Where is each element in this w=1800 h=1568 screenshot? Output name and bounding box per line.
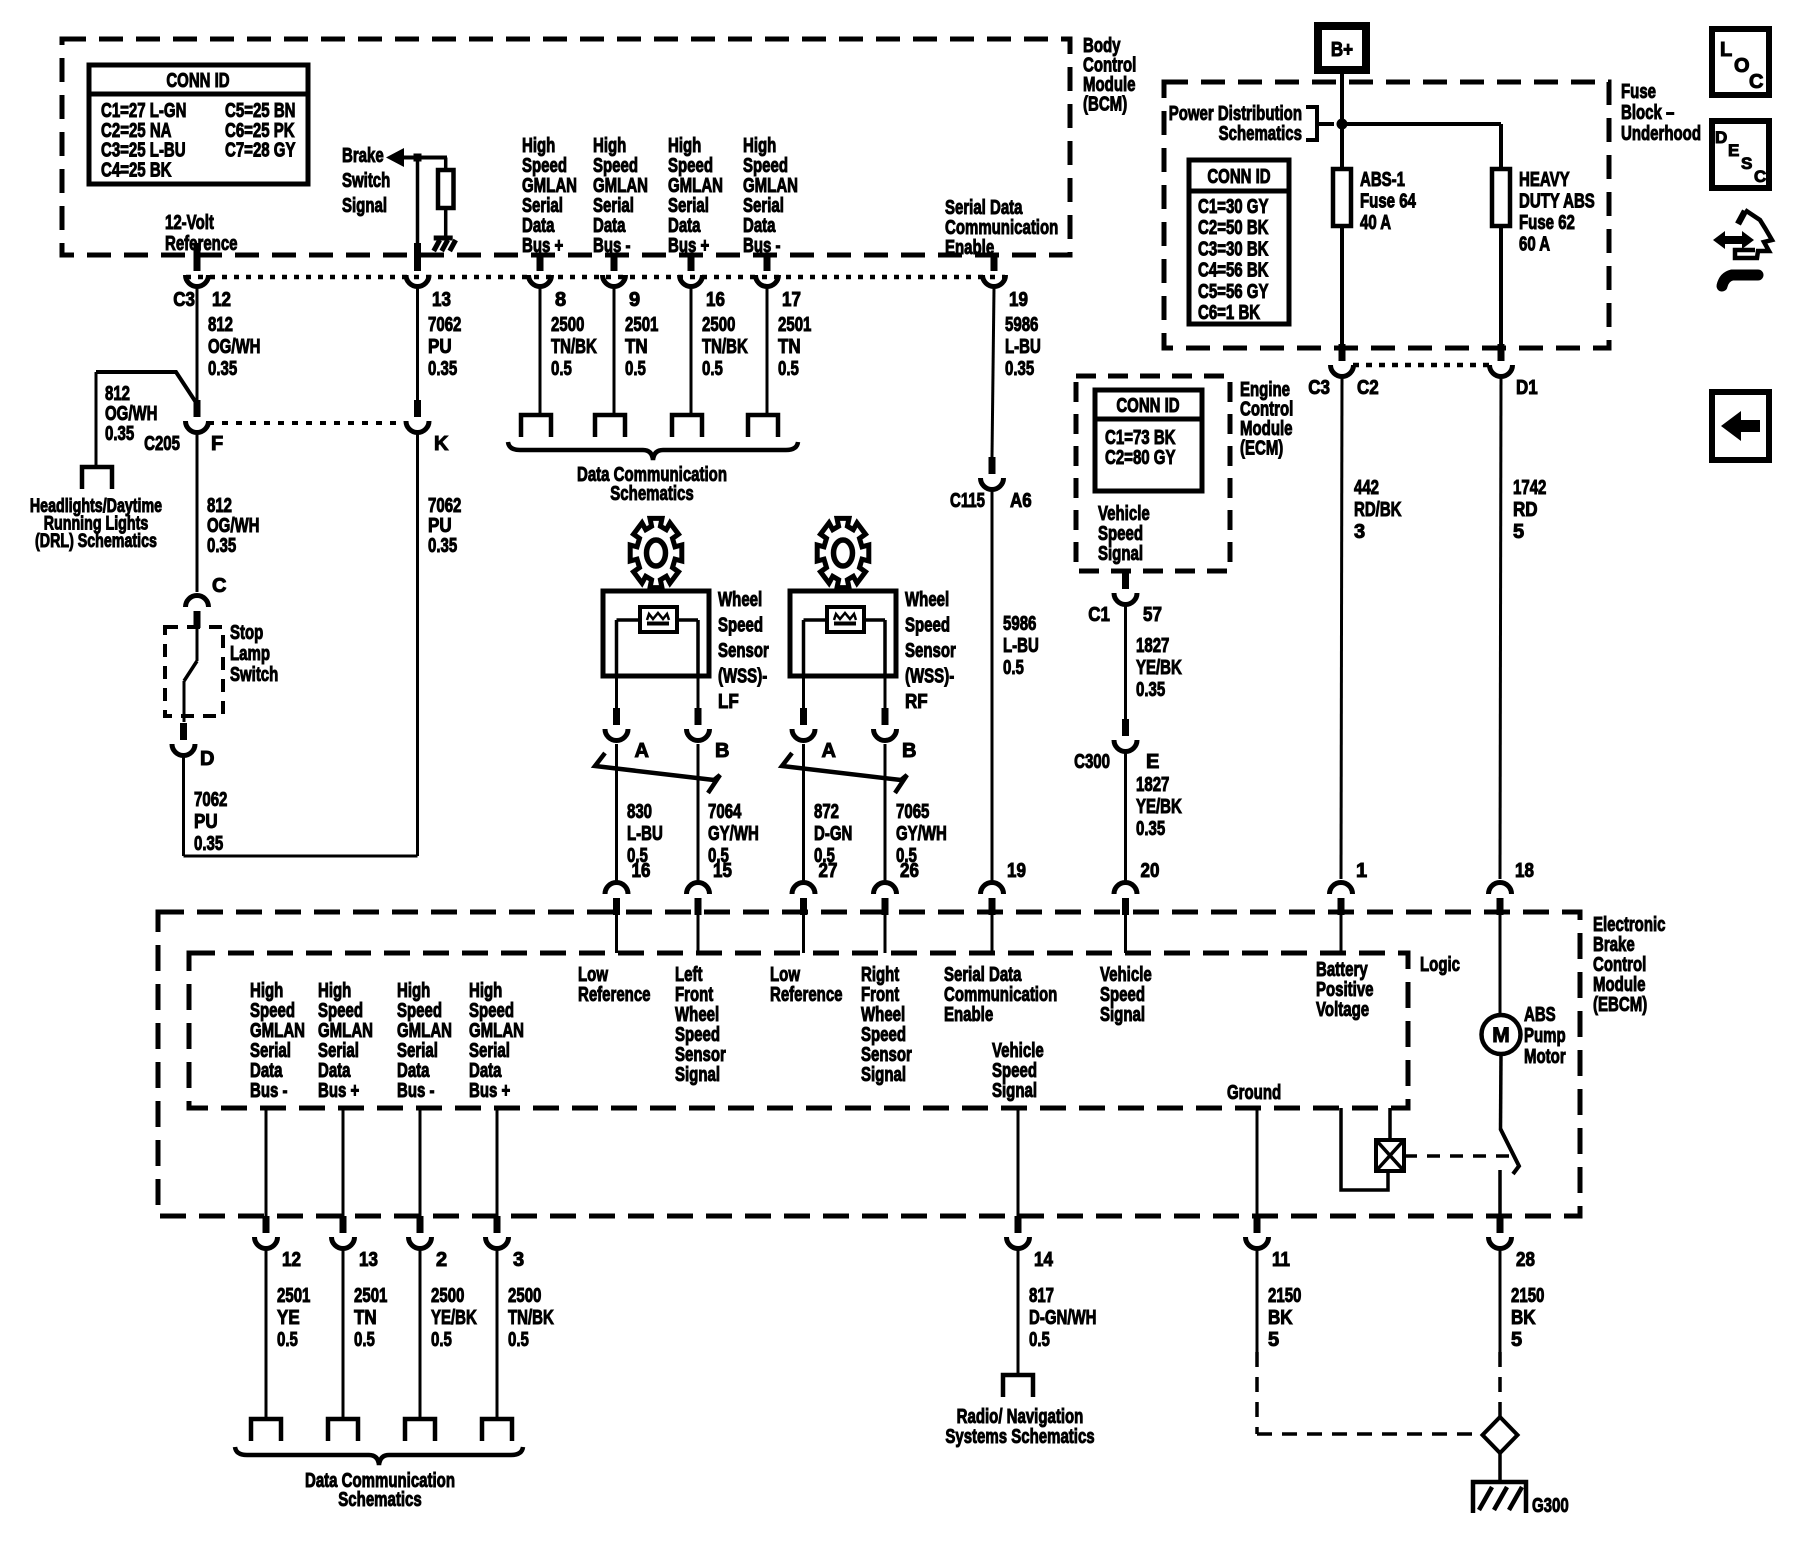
svg-text:(ECM): (ECM) xyxy=(1240,438,1283,460)
junction dot brake signal node xyxy=(414,154,422,162)
ground G300 xyxy=(1473,1482,1569,1517)
fuse block underhood box xyxy=(1164,82,1609,348)
svg-text:Radio/ Navigation: Radio/ Navigation xyxy=(957,1406,1084,1428)
svg-text:Serial: Serial xyxy=(469,1040,510,1062)
svg-text:16: 16 xyxy=(632,860,651,882)
connector EBCM pin 26 xyxy=(874,860,919,915)
svg-text:D1: D1 xyxy=(1516,377,1538,399)
svg-text:7065: 7065 xyxy=(896,801,929,823)
brace data communication (bottom) xyxy=(235,1447,523,1465)
svg-text:Signal: Signal xyxy=(992,1080,1037,1102)
svg-text:High: High xyxy=(318,980,351,1002)
wire 2150 BK dashed to splice xyxy=(1257,1352,1481,1434)
label 2150 BK 5 (pin 11) xyxy=(1268,1285,1301,1351)
wire EBCM pin 19 into logic box xyxy=(991,915,994,953)
svg-text:C115: C115 xyxy=(950,490,985,512)
label Body Control Module (BCM) xyxy=(1083,35,1136,116)
label 2500 TN/BK 0.5 xyxy=(508,1285,554,1351)
svg-text:7062: 7062 xyxy=(428,495,461,517)
svg-text:0.35: 0.35 xyxy=(428,535,457,557)
label Data Communication Schematics (bottom) xyxy=(305,1470,455,1511)
svg-text:Signal: Signal xyxy=(675,1064,720,1086)
connector EBCM pin 1 xyxy=(1330,860,1368,915)
wire 812 OG/WH (F to stop lamp switch) xyxy=(196,434,199,592)
svg-text:Data: Data xyxy=(250,1060,283,1082)
wire 2501 TN (pin 9) xyxy=(613,288,616,415)
connector pin 19 xyxy=(983,254,1028,311)
connector pin 9 xyxy=(603,254,641,311)
svg-text:Wheel: Wheel xyxy=(905,589,949,611)
svg-text:C300: C300 xyxy=(1074,751,1110,773)
svg-text:Data: Data xyxy=(318,1060,351,1082)
icon connector view swoosh xyxy=(1713,210,1772,286)
wire sensor RF lead A xyxy=(802,676,805,708)
svg-text:2150: 2150 xyxy=(1268,1285,1301,1307)
icon back arrow box xyxy=(1712,392,1769,460)
svg-text:830: 830 xyxy=(627,801,652,823)
svg-text:Motor: Motor xyxy=(1524,1046,1566,1068)
wire splice to ground xyxy=(1498,1453,1502,1483)
wire switch to EBCM pin 28 xyxy=(1498,1170,1502,1220)
svg-text:OG/WH: OG/WH xyxy=(208,336,261,358)
power distribution bracket xyxy=(1306,107,1334,140)
svg-text:Speed: Speed xyxy=(397,1000,442,1022)
off-page connector xyxy=(595,415,625,437)
svg-text:Signal: Signal xyxy=(1100,1004,1145,1026)
fuse ABS-1 Fuse 64 40 A xyxy=(1333,169,1351,226)
svg-text:Module: Module xyxy=(1593,974,1646,996)
svg-text:Schematics: Schematics xyxy=(1219,123,1302,145)
svg-text:A6: A6 xyxy=(1010,490,1032,512)
label 7062 PU 0.35 (lower) xyxy=(428,495,461,557)
wheel speed sensor RF body xyxy=(790,591,896,676)
wire EBCM pin 27 into logic box xyxy=(802,915,805,953)
label Electronic Brake Control Module (EBCM) xyxy=(1593,914,1666,1016)
svg-text:A: A xyxy=(822,740,836,762)
svg-text:CONN ID: CONN ID xyxy=(1207,166,1270,188)
wire EBCM pin 26 into logic box xyxy=(884,915,887,953)
BCM CONN ID table xyxy=(89,65,308,184)
wire 2501 TN (pin 17) xyxy=(766,288,769,415)
label 812 OG/WH 0.35 (upper) xyxy=(208,314,261,380)
svg-text:28: 28 xyxy=(1516,1249,1535,1271)
svg-text:High: High xyxy=(250,980,283,1002)
connector C3/C2 xyxy=(1308,344,1378,399)
connector EBCM pin 3 xyxy=(486,1216,525,1271)
svg-text:872: 872 xyxy=(814,801,839,823)
svg-text:Serial: Serial xyxy=(593,195,634,217)
svg-text:High: High xyxy=(593,135,626,157)
svg-text:B: B xyxy=(715,740,729,762)
off-page connector xyxy=(748,415,778,437)
label 7062 PU 0.35 (upper) xyxy=(428,314,461,380)
svg-text:PU: PU xyxy=(194,811,218,833)
svg-text:High: High xyxy=(469,980,502,1002)
svg-text:5986: 5986 xyxy=(1005,314,1038,336)
svg-text:C2: C2 xyxy=(1357,377,1379,399)
svg-text:Voltage: Voltage xyxy=(1316,999,1369,1021)
label High Speed GMLAN Serial Data Bus - (EBCM pin 2) xyxy=(397,980,452,1102)
svg-text:(BCM): (BCM) xyxy=(1083,94,1127,116)
connector D1 xyxy=(1490,344,1538,399)
wire EBCM GMLAN pin 2 down xyxy=(419,1108,422,1216)
svg-text:Enable: Enable xyxy=(944,1004,993,1026)
svg-text:S: S xyxy=(1741,154,1752,173)
svg-text:C5=56 GY: C5=56 GY xyxy=(1198,281,1269,303)
label 12-Volt Reference xyxy=(165,212,238,255)
svg-text:60 A: 60 A xyxy=(1519,234,1550,256)
svg-text:Low: Low xyxy=(770,964,800,986)
svg-text:Signal: Signal xyxy=(342,195,387,217)
off-page connector xyxy=(405,1419,435,1441)
svg-text:817: 817 xyxy=(1029,1285,1054,1307)
wire EBCM pin 20 into logic box xyxy=(1124,915,1127,953)
label 5986 L-BU 0.35 xyxy=(1005,314,1041,380)
svg-text:0.5: 0.5 xyxy=(551,358,572,380)
connector EBCM pin 18 xyxy=(1489,860,1534,915)
svg-text:0.5: 0.5 xyxy=(1029,1329,1050,1351)
svg-text:Signal: Signal xyxy=(1098,543,1143,565)
svg-text:CONN ID: CONN ID xyxy=(166,70,229,92)
svg-text:Underhood: Underhood xyxy=(1621,123,1701,145)
svg-text:Speed: Speed xyxy=(992,1060,1037,1082)
svg-text:Power Distribution: Power Distribution xyxy=(1169,103,1302,125)
svg-text:C5=25 BN: C5=25 BN xyxy=(225,100,296,122)
svg-text:TN/BK: TN/BK xyxy=(508,1307,554,1329)
svg-text:Fuse: Fuse xyxy=(1621,81,1656,103)
svg-text:Speed: Speed xyxy=(1100,984,1145,1006)
svg-text:C: C xyxy=(212,575,226,597)
DRL branch wire xyxy=(96,372,197,466)
body control module BCM box xyxy=(62,39,1070,255)
label High Speed GMLAN Serial Data Bus - (pin 9) xyxy=(593,135,648,257)
svg-text:Control: Control xyxy=(1593,954,1646,976)
svg-text:C1=27 L-GN: C1=27 L-GN xyxy=(101,100,186,122)
connector pin A (RF) xyxy=(792,708,836,762)
svg-text:D-GN: D-GN xyxy=(814,823,852,845)
svg-text:GY/WH: GY/WH xyxy=(896,823,947,845)
svg-text:Bus +: Bus + xyxy=(668,235,709,257)
wire sensor LF lead A xyxy=(615,676,618,708)
svg-text:0.5: 0.5 xyxy=(702,358,723,380)
wire 7062 PU (K down) xyxy=(416,434,419,856)
svg-text:Data: Data xyxy=(668,215,701,237)
svg-text:C1=30 GY: C1=30 GY xyxy=(1198,196,1269,218)
svg-text:0.35: 0.35 xyxy=(1136,679,1165,701)
svg-text:1742: 1742 xyxy=(1513,477,1546,499)
svg-text:C1=73 BK: C1=73 BK xyxy=(1105,427,1176,449)
label 442 RD/BK 3 xyxy=(1354,477,1402,543)
svg-text:GMLAN: GMLAN xyxy=(668,175,723,197)
svg-text:0.5: 0.5 xyxy=(354,1329,375,1351)
svg-text:2501: 2501 xyxy=(625,314,658,336)
svg-text:C7=28 GY: C7=28 GY xyxy=(225,140,296,162)
junction dot B+ node xyxy=(1337,119,1348,130)
label Battery Positive Voltage xyxy=(1316,959,1374,1021)
svg-text:F: F xyxy=(211,433,223,455)
svg-text:Wheel: Wheel xyxy=(718,589,762,611)
svg-text:Front: Front xyxy=(861,984,900,1006)
svg-text:0.35: 0.35 xyxy=(428,358,457,380)
connector EBCM pin 19 xyxy=(981,860,1026,915)
svg-text:C4=56 BK: C4=56 BK xyxy=(1198,260,1269,282)
wire 1827 YE/BK (C300 to EBCM pin 20) xyxy=(1124,753,1127,881)
svg-text:Switch: Switch xyxy=(230,664,278,686)
svg-text:17: 17 xyxy=(782,289,801,311)
svg-text:C3: C3 xyxy=(173,289,195,311)
svg-text:Schematics: Schematics xyxy=(610,483,693,505)
svg-text:7064: 7064 xyxy=(708,801,742,823)
connector pin 13 xyxy=(406,254,451,311)
label Vehicle Speed Signal (EBCM pin 14) xyxy=(992,1040,1044,1102)
svg-text:2: 2 xyxy=(436,1249,447,1271)
brace data communication (top) xyxy=(508,442,798,460)
svg-text:16: 16 xyxy=(706,289,725,311)
label High Speed GMLAN Serial Data Bus + (EBCM pin 3) xyxy=(469,980,524,1102)
sensor element RF xyxy=(827,607,864,632)
svg-text:0.5: 0.5 xyxy=(431,1329,452,1351)
svg-text:BK: BK xyxy=(1268,1307,1293,1329)
svg-text:TN/BK: TN/BK xyxy=(702,336,748,358)
connector C300 pin E xyxy=(1074,719,1159,773)
svg-text:Wheel: Wheel xyxy=(861,1004,905,1026)
svg-text:Reference: Reference xyxy=(165,233,238,255)
wire 1742 RD (D1 to EBCM pin 18) xyxy=(1500,378,1501,879)
wire EBCM GMLAN pin 3 down xyxy=(496,1108,499,1216)
svg-text:Reference: Reference xyxy=(578,984,651,1006)
svg-text:Data: Data xyxy=(593,215,626,237)
connector pin 8 xyxy=(529,254,567,311)
svg-text:C4=25 BK: C4=25 BK xyxy=(101,159,172,181)
label Ground xyxy=(1227,1082,1281,1104)
wire brake signal to pin 13 xyxy=(416,158,420,257)
svg-text:12: 12 xyxy=(212,289,231,311)
svg-text:Fuse 62: Fuse 62 xyxy=(1519,212,1575,234)
wire EBCM ground down xyxy=(1256,1108,1259,1216)
wire lead A down (RF) xyxy=(802,744,805,881)
svg-text:Battery: Battery xyxy=(1316,959,1368,981)
connector pin A (LF) xyxy=(605,708,649,762)
wire fuse 62 to D1 xyxy=(1499,226,1503,344)
svg-text:D: D xyxy=(1715,128,1727,147)
svg-text:Serial: Serial xyxy=(318,1040,359,1062)
connector EBCM pin 28 xyxy=(1489,1216,1535,1271)
svg-text:Bus +: Bus + xyxy=(522,235,563,257)
connector D stop lamp switch xyxy=(172,723,214,770)
label High Speed GMLAN Serial Data Bus + (EBCM pin 13) xyxy=(318,980,373,1102)
svg-text:E: E xyxy=(1728,141,1739,160)
svg-text:2150: 2150 xyxy=(1511,1285,1544,1307)
connector EBCM pin 14 xyxy=(1007,1216,1054,1271)
svg-text:5986: 5986 xyxy=(1003,613,1036,635)
label 2150 BK 5 (pin 28) xyxy=(1511,1285,1544,1351)
wire EBCM GMLAN pin 13 down xyxy=(342,1108,345,1216)
connector pin B (RF) xyxy=(874,708,917,762)
svg-text:9: 9 xyxy=(629,289,640,311)
svg-text:812: 812 xyxy=(207,495,232,517)
svg-text:0.35: 0.35 xyxy=(208,358,237,380)
label ABS Pump Motor xyxy=(1524,1004,1566,1068)
chassis ground (BCM internal) xyxy=(434,238,456,251)
svg-text:(EBCM): (EBCM) xyxy=(1593,994,1647,1016)
svg-text:0.5: 0.5 xyxy=(625,358,646,380)
svg-text:G300: G300 xyxy=(1532,1495,1569,1517)
svg-text:15: 15 xyxy=(713,860,732,882)
wire 7062 PU (pin 13 to K) xyxy=(416,288,419,400)
label ABS-1 Fuse 64 40 A xyxy=(1360,169,1417,234)
label Low Reference (RF) xyxy=(770,964,843,1006)
svg-text:Speed: Speed xyxy=(905,615,950,637)
svg-text:C3=30 BK: C3=30 BK xyxy=(1198,238,1269,260)
svg-text:C3: C3 xyxy=(1308,377,1330,399)
wire 1827 YE/BK (C1 to C300) xyxy=(1124,606,1127,719)
label HEAVY DUTY ABS Fuse 62 60 A xyxy=(1519,169,1595,256)
svg-text:Vehicle: Vehicle xyxy=(992,1040,1044,1062)
svg-text:7062: 7062 xyxy=(428,314,461,336)
svg-text:GMLAN: GMLAN xyxy=(318,1020,373,1042)
svg-text:(WSS)-: (WSS)- xyxy=(718,666,767,688)
svg-text:Speed: Speed xyxy=(522,155,567,177)
svg-text:B+: B+ xyxy=(1331,39,1353,61)
wire 2150 BK dashed to splice (pin 28) xyxy=(1498,1352,1502,1416)
fuse output dotted connector line xyxy=(1353,363,1490,368)
C205 dotted connector line xyxy=(208,421,407,425)
svg-text:L: L xyxy=(1720,39,1732,61)
svg-text:2500: 2500 xyxy=(431,1285,464,1307)
label 812 OG/WH 0.35 (lower) xyxy=(207,495,260,557)
wire 5986 L-BU (pin 19 to C115) xyxy=(992,288,994,457)
connector EBCM pin 20 xyxy=(1114,860,1159,915)
svg-text:TN/BK: TN/BK xyxy=(551,336,597,358)
svg-text:High: High xyxy=(743,135,776,157)
label Stop Lamp Switch xyxy=(230,622,278,686)
svg-text:Data: Data xyxy=(469,1060,502,1082)
wire B+ to fuses xyxy=(1342,72,1501,169)
label Serial Data Communication Enable (EBCM) xyxy=(944,964,1057,1026)
label 7065 GY/WH 0.5 xyxy=(896,801,947,867)
svg-text:B: B xyxy=(902,740,916,762)
connector EBCM pin 2 xyxy=(409,1216,448,1271)
svg-text:0.5: 0.5 xyxy=(1003,657,1024,679)
stop lamp switch box xyxy=(165,627,223,716)
svg-text:Speed: Speed xyxy=(675,1024,720,1046)
label High Speed GMLAN Serial Data Bus + (pin 8) xyxy=(522,135,577,257)
svg-text:Speed: Speed xyxy=(593,155,638,177)
svg-text:Speed: Speed xyxy=(743,155,788,177)
svg-text:3: 3 xyxy=(513,1249,524,1271)
svg-text:Positive: Positive xyxy=(1316,979,1374,1001)
svg-text:GMLAN: GMLAN xyxy=(593,175,648,197)
svg-text:812: 812 xyxy=(208,314,233,336)
wire lead B down (LF) xyxy=(697,744,700,881)
label 1827 YE/BK 0.35 (lower) xyxy=(1136,774,1182,840)
svg-text:GMLAN: GMLAN xyxy=(469,1020,524,1042)
svg-text:12-Volt: 12-Volt xyxy=(165,212,214,234)
off-page connector xyxy=(251,1419,281,1441)
stop lamp switch xyxy=(184,628,197,722)
svg-text:13: 13 xyxy=(359,1249,378,1271)
svg-text:K: K xyxy=(434,433,449,455)
wire lead A down (LF) xyxy=(615,744,618,881)
svg-text:L-BU: L-BU xyxy=(627,823,663,845)
svg-text:OG/WH: OG/WH xyxy=(105,403,158,425)
svg-text:Stop: Stop xyxy=(230,622,263,644)
BCM connector row dotted line xyxy=(186,275,1005,280)
connector C115 pin A6 xyxy=(950,457,1032,512)
svg-text:Serial: Serial xyxy=(522,195,563,217)
svg-text:PU: PU xyxy=(428,515,452,537)
off-page connector xyxy=(482,1419,512,1441)
connector EBCM pin 11 xyxy=(1246,1216,1291,1271)
svg-text:GY/WH: GY/WH xyxy=(708,823,759,845)
svg-text:High: High xyxy=(397,980,430,1002)
svg-text:0.35: 0.35 xyxy=(105,423,134,445)
svg-text:L-BU: L-BU xyxy=(1005,336,1041,358)
off-page to radio/navigation xyxy=(1003,1375,1033,1397)
ECM CONN ID table xyxy=(1095,390,1202,491)
svg-text:YE/BK: YE/BK xyxy=(1136,796,1182,818)
svg-text:C2=50 BK: C2=50 BK xyxy=(1198,217,1269,239)
svg-text:27: 27 xyxy=(819,860,838,882)
svg-text:PU: PU xyxy=(428,336,452,358)
svg-text:C1: C1 xyxy=(1088,604,1110,626)
svg-text:0.5: 0.5 xyxy=(508,1329,529,1351)
svg-text:Serial: Serial xyxy=(250,1040,291,1062)
wire 2500 YE/BK 0.5 xyxy=(419,1250,422,1419)
svg-text:442: 442 xyxy=(1354,477,1379,499)
label 817 D-GN/WH 0.5 xyxy=(1029,1285,1097,1351)
label 2500 TN/BK 0.5 xyxy=(702,314,748,380)
svg-text:Speed: Speed xyxy=(718,615,763,637)
svg-text:13: 13 xyxy=(432,289,451,311)
icon DESC box xyxy=(1712,121,1769,188)
label 2500 YE/BK 0.5 xyxy=(431,1285,477,1351)
svg-text:Speed: Speed xyxy=(250,1000,295,1022)
twisted pair symbol LF xyxy=(595,753,720,793)
svg-text:RD: RD xyxy=(1513,499,1538,521)
svg-text:19: 19 xyxy=(1007,860,1026,882)
svg-text:C6=25 PK: C6=25 PK xyxy=(225,120,295,142)
label 7064 GY/WH 0.5 xyxy=(708,801,759,867)
label 2501 TN 0.5 xyxy=(354,1285,387,1351)
svg-text:A: A xyxy=(635,740,649,762)
svg-text:TN: TN xyxy=(354,1307,377,1329)
svg-text:Electronic: Electronic xyxy=(1593,914,1666,936)
wire logic to solenoid top xyxy=(1388,1108,1392,1140)
svg-text:GMLAN: GMLAN xyxy=(250,1020,305,1042)
electronic brake control module EBCM box xyxy=(158,912,1580,1216)
label 872 D-GN 0.5 xyxy=(814,801,852,867)
svg-text:Bus -: Bus - xyxy=(593,235,631,257)
twisted pair symbol RF xyxy=(782,753,907,793)
svg-text:L-BU: L-BU xyxy=(1003,635,1039,657)
wire ECM to C1 xyxy=(1124,571,1127,572)
label Vehicle Speed Signal (EBCM pin 20) xyxy=(1100,964,1152,1026)
svg-text:E: E xyxy=(1146,751,1159,773)
svg-text:0.35: 0.35 xyxy=(1136,818,1165,840)
label 2501 TN 0.5 xyxy=(778,314,811,380)
connector EBCM pin 15 xyxy=(687,860,732,915)
svg-text:Sensor: Sensor xyxy=(675,1044,726,1066)
label 7062 PU 0.35 (under D) xyxy=(194,789,227,855)
svg-text:57: 57 xyxy=(1143,604,1162,626)
svg-text:Switch: Switch xyxy=(342,170,390,192)
svg-text:YE/BK: YE/BK xyxy=(1136,657,1182,679)
svg-text:Fuse 64: Fuse 64 xyxy=(1360,191,1417,213)
label Data Communication Schematics (top) xyxy=(577,464,727,505)
svg-text:11: 11 xyxy=(1272,1249,1290,1271)
svg-text:7062: 7062 xyxy=(194,789,227,811)
